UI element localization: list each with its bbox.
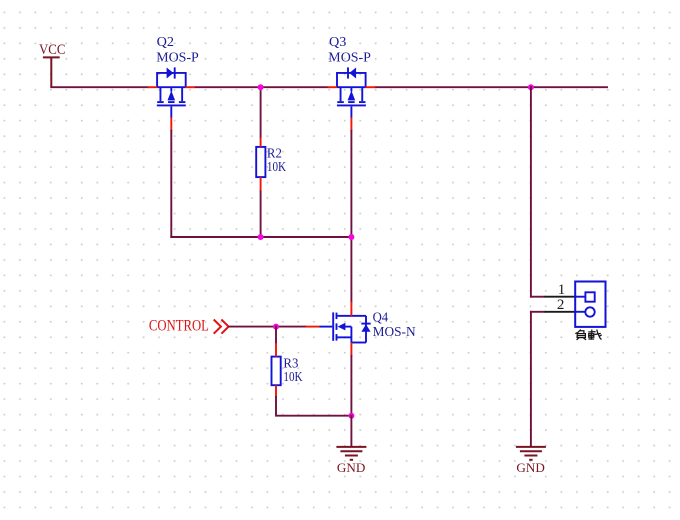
transistor Q4 source pin (350, 343, 352, 357)
connector P1 label 负载 (load) (575, 330, 601, 340)
transistor Q4 gate pin (306, 326, 320, 328)
svg-text:2: 2 (557, 297, 565, 313)
wire R2 bottom (260, 192, 262, 238)
wire VCC rail left segment (51, 86, 147, 88)
transistor Q3 drain pin (328, 86, 337, 88)
wire load branch down from rail (530, 87, 532, 297)
resistor R3 pin 1 (275, 343, 277, 357)
ground GND (left) (336, 447, 366, 475)
svg-text:GND: GND (337, 460, 365, 475)
wire R3 top (275, 327, 277, 343)
resistor R3 pin 2 (275, 385, 277, 397)
transistor Q3 gate pin (350, 118, 352, 132)
resistor R2 pin 1 (260, 138, 262, 147)
svg-text:Q2: Q2 (157, 35, 174, 50)
wire rail Q3 to load junction and right end (375, 86, 607, 88)
wire ground node to GND symbol (350, 416, 352, 446)
wire ground branch down (530, 312, 532, 446)
transistor Q3 source pin (366, 86, 376, 88)
power port VCC (39, 42, 66, 87)
svg-text:GND: GND (516, 460, 544, 475)
wire rail Q2 to R2 junction (195, 86, 261, 88)
transistor Q3 (P-MOSFET, mirrored) body (337, 67, 366, 117)
wire node to Q4 drain (350, 237, 352, 302)
junction R3 tap (273, 324, 279, 330)
svg-text:10K: 10K (283, 369, 302, 384)
junction ground node (348, 413, 354, 419)
connector P1 pin 1 lead (545, 296, 576, 298)
transistor Q4 (N-MOSFET) body (333, 312, 371, 342)
resistor R2 pin 2 (260, 177, 262, 191)
wire Q4 source to ground node (350, 356, 352, 416)
net label CONTROL chevrons (214, 320, 229, 334)
svg-text:MOS-N: MOS-N (373, 324, 416, 339)
svg-text:10K: 10K (267, 159, 286, 174)
ground GND (right) (516, 447, 546, 475)
wire Q3 gate down (350, 131, 352, 237)
wire R3 bottom elbow (276, 397, 351, 416)
wire gates node horizontal (171, 236, 351, 238)
wire CONTROL to Q4 gate (230, 326, 306, 328)
connector P1 pin 2 lead (545, 311, 576, 313)
transistor Q4 drain pin (350, 302, 352, 316)
resistor R2 (256, 147, 265, 177)
svg-text:VCC: VCC (39, 42, 66, 58)
junction R2 bottom (258, 234, 264, 240)
svg-text:Q3: Q3 (329, 35, 346, 50)
transistor Q2 drain pin (186, 86, 195, 88)
wire rail R2 junction to Q3 (261, 86, 328, 88)
junction R2 top on rail (258, 84, 264, 90)
wire Q2 gate to gates node (170, 131, 172, 237)
wire connector pin 2 to ground branch (531, 311, 545, 313)
transistor Q2 source pin (148, 86, 158, 88)
svg-text:MOS-P: MOS-P (328, 51, 371, 66)
junction gates node (348, 234, 354, 240)
junction load branch on rail (528, 84, 534, 90)
resistor R3 (272, 357, 281, 386)
svg-text:MOS-P: MOS-P (156, 51, 199, 66)
connector P1 body (575, 282, 605, 327)
svg-text:CONTROL: CONTROL (149, 317, 209, 334)
transistor Q2 gate pin (170, 118, 172, 132)
wire elbow to connector pin 1 (531, 296, 545, 298)
svg-text:1: 1 (558, 282, 566, 298)
transistor Q2 (P-MOSFET) body (157, 67, 186, 117)
svg-text:Q4: Q4 (373, 309, 389, 324)
wire R2 top (260, 87, 262, 137)
